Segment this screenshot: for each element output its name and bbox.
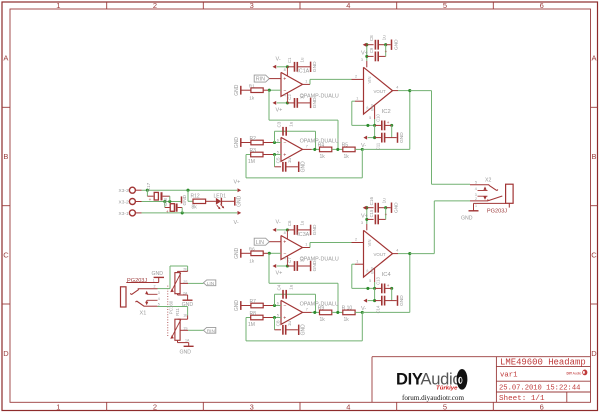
svg-text:IC1A: IC1A [297,69,309,75]
svg-text:R8: R8 [250,311,257,317]
svg-text:2E: 2E [183,267,188,271]
svg-text:5: 5 [277,314,279,318]
svg-text:C6: C6 [287,220,292,226]
svg-text:6: 6 [277,301,279,305]
svg-text:1M: 1M [248,322,255,328]
svg-text:1k: 1k [320,317,326,323]
svg-text:R6: R6 [249,247,255,252]
svg-text:LED1: LED1 [214,194,227,200]
svg-text:B: B [3,152,8,161]
svg-text:1k: 1k [320,154,326,160]
svg-text:V-: V- [234,220,239,226]
svg-text:DIY: DIY [396,371,423,389]
svg-text:IC3A: IC3A [297,232,309,238]
svg-text:2: 2 [475,197,477,201]
svg-text:LIN: LIN [256,240,264,246]
svg-text:R9: R9 [318,306,325,312]
svg-text:GND: GND [152,271,164,277]
svg-text:C16: C16 [369,197,374,206]
svg-text:V-: V- [361,306,366,312]
svg-text:5: 5 [369,279,371,283]
svg-text:GND: GND [393,202,399,213]
svg-text:C14: C14 [375,305,380,313]
svg-text:+: + [283,76,286,82]
svg-text:1: 1 [305,80,307,84]
svg-text:+: + [385,212,388,217]
svg-text:C: C [591,250,597,259]
svg-text:C9: C9 [369,47,374,53]
svg-text:C1: C1 [287,57,292,63]
svg-text:LME49600 Headamp: LME49600 Headamp [500,357,586,368]
svg-text:1k: 1k [249,95,255,100]
svg-text:3: 3 [250,402,254,411]
svg-text:1: 1 [56,402,60,411]
svg-text:V+: V+ [276,108,283,114]
svg-text:IC2: IC2 [382,109,391,115]
svg-text:GND: GND [237,195,243,207]
svg-text:Türkiye: Türkiye [436,385,458,391]
svg-text:1u: 1u [289,121,294,127]
svg-text:6: 6 [540,1,544,10]
svg-text:var1: var1 [500,371,518,379]
svg-text:R2: R2 [250,136,257,142]
svg-text:6: 6 [277,138,279,142]
svg-text:1u: 1u [300,57,305,62]
svg-text:C2: C2 [287,94,292,100]
svg-text:4: 4 [396,248,398,252]
svg-text:2: 2 [154,285,156,289]
svg-text:1u: 1u [300,220,305,225]
svg-text:V+: V+ [361,214,368,220]
svg-text:X3-1: X3-1 [119,211,129,217]
svg-text:5: 5 [443,402,447,411]
svg-text:GND: GND [182,302,194,308]
svg-text:V-: V- [276,220,281,226]
svg-text:GND: GND [312,224,318,235]
svg-text:1k: 1k [344,154,350,160]
svg-text:4: 4 [346,1,350,10]
svg-text:1: 1 [475,204,477,208]
svg-text:+: + [385,49,388,54]
svg-text:V+: V+ [234,180,241,186]
svg-text:V+: V+ [276,271,283,277]
svg-text:VIN: VIN [367,240,372,247]
svg-text:+: + [387,283,390,288]
svg-text:1k: 1k [344,317,350,323]
svg-text:R12: R12 [191,194,200,200]
svg-text:forum.diyaudiotr.com: forum.diyaudiotr.com [402,393,464,402]
svg-text:PG203J: PG203J [127,278,147,284]
svg-text:8: 8 [284,231,286,235]
svg-text:C11: C11 [375,142,380,150]
svg-text:8k: 8k [192,205,198,211]
svg-text:C8: C8 [276,320,281,326]
svg-text:1u: 1u [382,35,387,41]
svg-text:IC4: IC4 [382,272,392,278]
svg-text:R7: R7 [250,299,257,305]
svg-text:3: 3 [361,58,363,62]
svg-text:7: 7 [306,144,308,148]
svg-text:3: 3 [158,291,160,295]
svg-text:C17: C17 [146,182,151,191]
svg-text:+: + [149,197,152,202]
svg-text:BW: BW [369,267,374,274]
svg-text:2: 2 [153,402,157,411]
svg-text:C15: C15 [369,209,374,217]
svg-text:C7: C7 [287,257,292,263]
svg-text:C4: C4 [276,284,281,290]
svg-text:2: 2 [153,1,157,10]
svg-text:OPAMP-DUALU: OPAMP-DUALU [300,93,339,99]
svg-text:V-: V- [276,57,281,63]
svg-text:C18: C18 [163,197,168,205]
svg-text:A: A [591,54,596,63]
svg-text:GND: GND [182,194,188,205]
svg-text:R 10: R 10 [342,306,353,312]
svg-text:RIN: RIN [207,328,216,334]
svg-text:LIN: LIN [207,281,215,287]
svg-text:RIN: RIN [256,77,265,83]
svg-text:2A: 2A [183,291,188,295]
svg-text:2: 2 [355,238,357,242]
svg-text:OPAMP-DUALU: OPAMP-DUALU [300,257,339,263]
svg-text:D: D [591,349,597,358]
svg-text:4: 4 [475,187,477,191]
svg-text:R1: R1 [249,84,255,89]
svg-text:Sheet: 1/1: Sheet: 1/1 [499,395,545,403]
svg-text:GND: GND [234,84,240,96]
svg-text:Audio: Audio [573,372,582,376]
svg-text:VOUT: VOUT [374,252,387,257]
svg-text:1: 1 [356,259,358,263]
svg-text:C5: C5 [276,157,281,163]
svg-text:R5: R5 [342,143,349,149]
svg-text:C13: C13 [375,276,380,284]
svg-text:GND: GND [461,216,473,222]
svg-text:V+: V+ [361,51,368,57]
svg-text:1u: 1u [287,321,292,327]
svg-text:5: 5 [443,1,447,10]
svg-text:2: 2 [355,74,357,78]
svg-text:6: 6 [540,402,544,411]
svg-text:−: − [283,303,286,309]
svg-text:GND: GND [234,247,240,258]
svg-text:X2: X2 [485,177,491,183]
svg-text:1A: 1A [185,339,190,343]
svg-text:1k: 1k [249,258,255,263]
svg-text:+: + [166,209,169,214]
svg-text:1u: 1u [287,158,292,164]
svg-text:GND: GND [301,324,307,336]
svg-text:3: 3 [475,193,477,197]
svg-text:4: 4 [346,402,350,411]
svg-text:+: + [283,152,286,158]
svg-text:3: 3 [361,221,363,225]
svg-text:X3-2: X3-2 [119,199,129,205]
svg-text:GND: GND [234,300,240,312]
svg-text:D: D [3,349,9,358]
svg-text:R3: R3 [250,148,257,154]
svg-text:R4: R4 [318,143,325,149]
svg-text:B: B [591,152,596,161]
svg-text:1u: 1u [289,284,294,290]
svg-text:V-: V- [361,143,366,149]
svg-text:X1: X1 [140,311,147,317]
svg-text:8: 8 [284,68,286,72]
svg-text:4: 4 [284,256,286,260]
svg-text:VOUT: VOUT [374,89,387,94]
svg-text:1E: 1E [183,314,188,318]
svg-text:GND: GND [234,137,240,149]
svg-text:1u: 1u [382,198,387,204]
svg-text:C10: C10 [375,113,380,121]
svg-text:1: 1 [305,243,307,247]
svg-text:5: 5 [369,116,371,120]
svg-text:BW: BW [369,104,374,111]
svg-text:VIN: VIN [367,77,372,84]
svg-text:1M: 1M [248,159,255,165]
svg-text:C: C [3,250,9,259]
svg-text:2S: 2S [183,280,188,284]
svg-text:GND: GND [312,61,318,72]
svg-text:5: 5 [277,151,279,155]
svg-text:GND: GND [399,132,405,143]
svg-text:1S: 1S [183,326,188,330]
svg-text:A: A [3,54,8,63]
svg-text:1: 1 [356,96,358,100]
svg-text:1: 1 [153,279,155,283]
svg-text:5: 5 [475,180,477,184]
svg-text:+: + [283,240,286,246]
svg-text:X3-3: X3-3 [119,188,129,194]
svg-text:4: 4 [396,85,398,89]
svg-text:1: 1 [56,1,60,10]
svg-text:PC160: PC160 [168,300,173,314]
svg-text:C3: C3 [276,121,281,127]
svg-text:C8: C8 [369,35,374,41]
svg-text:25.07.2010 15:22:44: 25.07.2010 15:22:44 [499,384,581,392]
svg-text:GND: GND [399,295,405,306]
svg-text:7: 7 [306,307,308,311]
svg-text:GND: GND [301,161,307,173]
svg-text:+: + [387,120,390,125]
svg-text:−: − [283,140,286,146]
svg-text:+: + [283,315,286,321]
svg-text:GND: GND [393,39,399,50]
svg-text:GND: GND [180,349,192,355]
svg-text:PG203J: PG203J [487,208,507,214]
svg-text:R11: R11 [175,308,180,316]
svg-text:3: 3 [250,1,254,10]
svg-text:4: 4 [284,93,286,97]
svg-text:4: 4 [158,297,160,301]
